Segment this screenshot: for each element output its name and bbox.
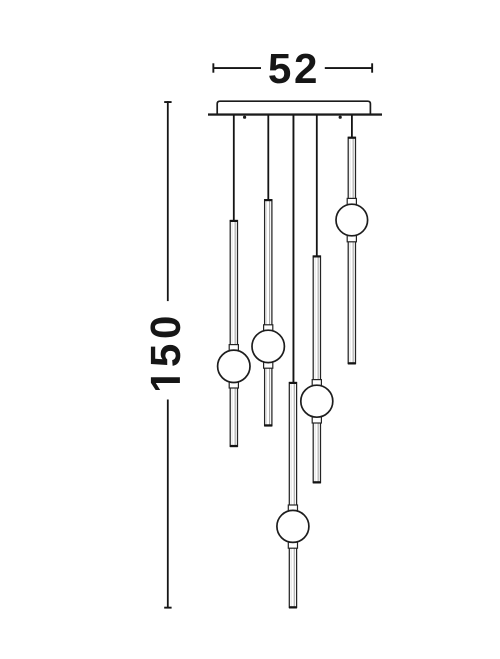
dimension 150 lower line: [167, 400, 169, 608]
sphere 4 joints: [312, 380, 321, 423]
pendant rod 3: [289, 382, 297, 609]
sphere 4: [301, 385, 333, 417]
canopy bottom flange: [208, 113, 382, 115]
dimension 150 label digit 5 (rotated): [151, 345, 180, 366]
cord 5: [351, 115, 353, 138]
dimension 150 label digit 1 (rotated): [151, 377, 180, 390]
pendant rod 1: [230, 220, 238, 447]
canopy plate: [217, 101, 370, 114]
sphere 1 joints: [229, 345, 238, 388]
pendant rod 2: [264, 199, 272, 426]
dimension 150 bottom tick: [164, 607, 171, 609]
dimension 150 label digit 0 (rotated): [150, 317, 180, 337]
pendant rod 5: [348, 137, 356, 365]
canopy screw left: [243, 116, 246, 119]
dimension 150 top tick: [164, 101, 171, 103]
dimension 52 right tick: [371, 63, 373, 72]
sphere 1: [218, 350, 250, 382]
cord 4: [316, 115, 318, 257]
sphere 5: [336, 204, 368, 236]
cord 2: [267, 115, 269, 200]
dimension 150 upper line: [167, 101, 169, 301]
sphere 5 joints: [347, 198, 356, 241]
sphere 2 joints: [264, 325, 273, 368]
dimension 52 left tick: [212, 63, 214, 72]
cord 1: [233, 115, 235, 221]
dimension 52 left line: [214, 67, 262, 69]
cord 3: [293, 115, 295, 383]
dimension 52 right line: [325, 67, 372, 69]
sphere 3 joints: [288, 505, 297, 548]
dimension 52 label digit 2: [295, 54, 315, 83]
canopy screw right: [339, 116, 342, 119]
sphere 3: [277, 510, 309, 542]
sphere 2: [252, 330, 284, 362]
dimension 52 label digit 5: [269, 54, 290, 83]
pendant rod 4: [313, 255, 321, 483]
